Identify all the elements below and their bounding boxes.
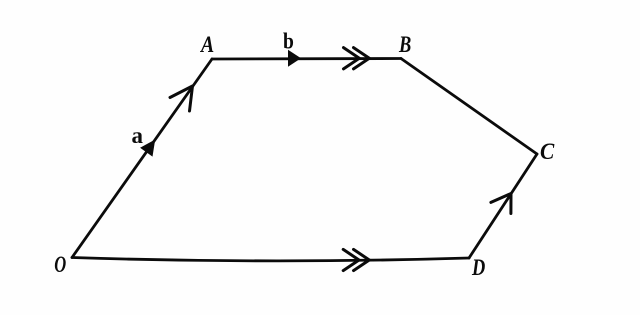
wire side AB — [212, 57, 401, 60]
svg-text:A: A — [199, 32, 214, 58]
single chevron tick on OA — [170, 86, 193, 111]
svg-text:b: b — [283, 28, 294, 54]
wire side CD — [469, 154, 537, 258]
svg-text:C: C — [540, 138, 554, 164]
double chevron tick on OD (outer) — [354, 249, 370, 270]
filled arrowhead on AB (vector b) — [288, 50, 301, 67]
wire side BC — [401, 59, 537, 155]
double chevron tick on AB (inner) — [344, 48, 360, 69]
double chevron tick on OD (inner) — [343, 249, 359, 270]
double chevron tick on AB (outer) — [354, 48, 370, 69]
svg-text:D: D — [471, 254, 485, 281]
wire side OD — [72, 258, 469, 261]
filled arrowhead on OA (vector a) — [140, 140, 155, 157]
svg-text:O: O — [54, 252, 66, 277]
svg-text:a: a — [132, 123, 144, 148]
wire side OA — [72, 59, 212, 258]
single chevron tick on DC — [491, 194, 511, 214]
svg-text:B: B — [398, 31, 411, 58]
